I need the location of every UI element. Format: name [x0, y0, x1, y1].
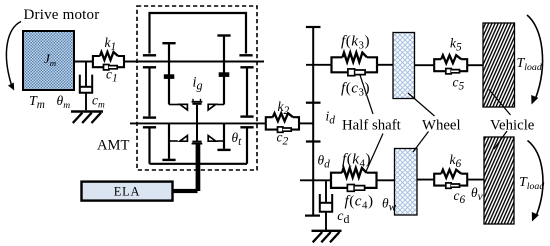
countershaft gear right: [245, 12, 247, 54]
trunk tick 1: [306, 102, 321, 104]
svg-text:cd: cd: [337, 209, 349, 226]
synchro fork lower-left: [180, 136, 188, 142]
gear column left below output shaft: [143, 126, 156, 128]
countershaft top line: [150, 12, 247, 14]
half-shaft spring-damper f(k3) f(c3): [332, 57, 343, 65]
damper cd: [325, 180, 327, 203]
driven gear 2 lower (x=224): [223, 123, 225, 148]
wheel inertia lower: [395, 149, 418, 216]
hub line to upper left synchro: [169, 104, 179, 106]
shift actuator rod (thick): [196, 144, 201, 191]
wire f(k4) to wheel: [377, 179, 395, 181]
load torque arrow lower: [528, 141, 543, 216]
wire trunk to f(k4): [300, 179, 331, 181]
synchro fork upper-left: [180, 104, 188, 110]
svg-text:Vehicle: Vehicle: [490, 118, 535, 134]
svg-text:f(c4): f(c4): [345, 193, 374, 212]
motor inertia Jm: [23, 31, 74, 90]
synchro fork lower-right: [208, 136, 216, 142]
synchro sleeve upper: [192, 99, 194, 101]
vehicle inertia lower: [484, 137, 514, 224]
damper cm: [85, 62, 87, 87]
countershaft gear left: [148, 12, 150, 54]
synchro sleeve lower: [192, 141, 201, 143]
lower shaft line: [150, 163, 248, 165]
synchro fork upper-right: [208, 104, 216, 110]
actuator link horizontal (thick): [173, 189, 198, 193]
synchro stem: [196, 105, 198, 141]
hub line from upper right synchro: [217, 104, 224, 106]
callout vehicle to upper vehicle box: [489, 90, 511, 116]
callout vehicle to lower vehicle box: [494, 131, 507, 149]
trunk bottom cap: [305, 215, 320, 217]
wire k1 to AMT: [124, 61, 264, 63]
wire motor shaft: [74, 61, 93, 63]
svg-text:ELA: ELA: [114, 184, 141, 198]
ELA actuator box: [82, 182, 173, 201]
svg-text:Half shaft: Half shaft: [342, 118, 402, 134]
gear column right below input shaft: [240, 66, 253, 68]
callout wheel to lower wheel box: [413, 132, 429, 153]
trunk top cap: [306, 26, 321, 28]
wire trunk to f(k3): [306, 64, 332, 66]
wire f(k3) to wheel: [377, 64, 393, 66]
wheel inertia upper: [393, 33, 415, 99]
svg-text:Wheel: Wheel: [422, 118, 461, 134]
callout curved arrow to drive motor: [6, 22, 21, 85]
svg-text:f(c3): f(c3): [341, 80, 370, 99]
wire wheel to k5: [415, 64, 435, 66]
ground under cd: [312, 230, 342, 232]
gear column left below input shaft: [143, 66, 156, 68]
spring-damper k2 c2: [266, 117, 273, 123]
gear column right below output shaft: [240, 126, 253, 128]
wire wheel to k6: [417, 179, 434, 181]
svg-text:AMT: AMT: [97, 138, 130, 154]
final drive shaft (vertical): [312, 27, 314, 215]
half-shaft spring-damper f(k4) f(c4): [331, 173, 342, 181]
svg-text:f(k3): f(k3): [341, 33, 370, 52]
output shaft line: [130, 122, 266, 124]
spring-damper k5 c5: [434, 59, 441, 65]
spring-damper k6 c6: [434, 174, 441, 180]
load torque arrow upper: [527, 15, 543, 99]
callout half shaft to f(k4): [366, 134, 383, 172]
ground under cm: [71, 110, 103, 112]
spring-damper k1 c1: [93, 56, 100, 62]
callout half shaft to f(c3): [360, 75, 373, 114]
svg-text:f(k4): f(k4): [342, 151, 371, 170]
svg-text:Drive motor: Drive motor: [24, 7, 100, 23]
input gear 1 (x=169): [162, 42, 175, 44]
driven gear 1 lower (x=169): [168, 123, 170, 158]
wire k2 to final drive: [299, 122, 313, 124]
trunk tick 2: [306, 140, 321, 142]
input gear 2 (x=224): [217, 34, 230, 36]
wire k5 to vehicle: [467, 64, 483, 66]
callout wheel to upper wheel box: [408, 93, 435, 116]
wire k6 to vehicle: [467, 179, 484, 181]
AMT housing dashed box: [137, 6, 257, 170]
vehicle inertia upper: [483, 23, 515, 107]
